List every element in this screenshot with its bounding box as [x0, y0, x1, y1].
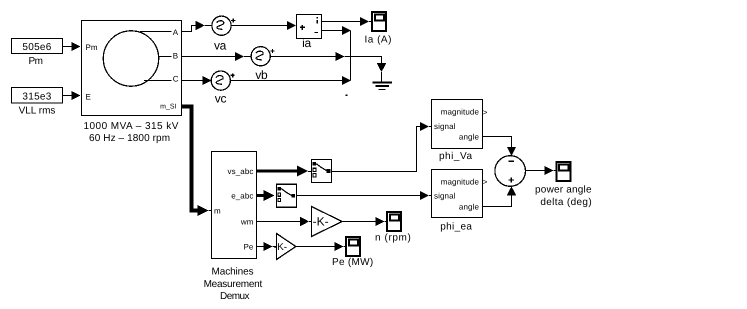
- wire B to vb: [182, 52, 252, 61]
- svg-text:VLL rms: VLL rms: [19, 106, 56, 117]
- svg-text:505e6: 505e6: [22, 42, 51, 53]
- sum block: [495, 156, 526, 187]
- svg-text:va: va: [214, 39, 227, 53]
- svg-text:>: >: [483, 178, 488, 187]
- wire ia minus-output to junction: [322, 26, 351, 35]
- svg-text:n (rpm): n (rpm): [375, 233, 411, 244]
- svg-text:-K-: -K-: [274, 242, 287, 253]
- wire Pm constant to machine: [63, 42, 81, 51]
- svg-text:Pm: Pm: [29, 56, 43, 67]
- wire gain1 to scope n: [342, 217, 386, 226]
- svg-text:signal: signal: [434, 192, 456, 201]
- wire gain2 to scope Pe: [296, 242, 345, 251]
- svg-text:315e3: 315e3: [22, 92, 51, 103]
- svg-text:Pe (MW): Pe (MW): [332, 257, 374, 268]
- svg-text:magnitude: magnitude: [441, 177, 480, 186]
- svg-text:e_abc: e_abc: [231, 192, 253, 201]
- svg-text:vs_abc: vs_abc: [228, 167, 254, 176]
- wire Pe to gain2: [257, 242, 277, 251]
- wire phi_ea angle to sum: [482, 186, 516, 206]
- svg-text:ia: ia: [302, 36, 311, 50]
- scope Ia (A): [364, 12, 391, 46]
- wire ia i-output to scope Ia: [322, 17, 372, 26]
- wire va to ia: [231, 21, 296, 30]
- svg-text:-K-: -K-: [313, 214, 329, 228]
- svg-text:m_SI: m_SI: [160, 103, 176, 110]
- thick wire m_SI to demux m: [182, 107, 212, 217]
- wire phi_Va angle to sum: [482, 137, 516, 156]
- svg-text:power angle: power angle: [535, 185, 592, 196]
- thick wire vs_abc to selector1: [257, 165, 312, 176]
- constant block Pm (505e6): [12, 39, 63, 68]
- voltage source vc: [211, 71, 235, 106]
- scope power angle delta: [535, 162, 592, 208]
- wire selector2 to phi_ea signal: [297, 191, 432, 200]
- svg-text:>: >: [483, 108, 488, 117]
- gain block 2 (-K-): [274, 234, 296, 260]
- wire sum to delta scope: [526, 166, 556, 175]
- svg-text:phi_Va: phi_Va: [439, 151, 473, 162]
- svg-text:phi_ea: phi_ea: [440, 221, 472, 232]
- svg-text:angle: angle: [459, 203, 480, 212]
- gain block 1 (-K-): [312, 207, 343, 237]
- wire VLL constant to machine: [63, 91, 81, 100]
- svg-text:60 Hz – 1800 rpm: 60 Hz – 1800 rpm: [89, 133, 170, 144]
- subsystem phi_Va: [432, 100, 488, 162]
- subsystem phi_ea: [432, 170, 488, 233]
- svg-text:angle: angle: [459, 133, 480, 142]
- svg-text:Demux: Demux: [220, 291, 249, 302]
- svg-text:Pm: Pm: [86, 43, 98, 52]
- svg-text:Measurement: Measurement: [204, 279, 263, 290]
- current measurement block ia: [297, 15, 322, 50]
- scope Pe (MW): [332, 237, 374, 268]
- svg-text:vb: vb: [255, 68, 268, 82]
- thick wire e_abc to selector2: [257, 190, 275, 201]
- wire vc to junction: [230, 76, 350, 85]
- svg-text:1000 MVA – 315 kV: 1000 MVA – 315 kV: [84, 121, 179, 132]
- svg-text:vc: vc: [215, 92, 227, 106]
- machines measurement demux block: [204, 152, 263, 303]
- wire selector1 to phi_Va signal: [332, 122, 432, 172]
- selector block 1: [312, 160, 332, 183]
- svg-text:Machines: Machines: [212, 267, 254, 278]
- wire C to vc: [182, 76, 212, 85]
- wire vb to ground node: [270, 52, 386, 72]
- svg-text:magnitude: magnitude: [441, 108, 480, 117]
- svg-text:B: B: [173, 51, 178, 60]
- voltage source vb: [251, 47, 275, 82]
- selector block 2: [276, 184, 296, 207]
- wire wm to gain1: [257, 217, 312, 226]
- svg-text:Pe: Pe: [244, 242, 254, 251]
- svg-text:delta (deg): delta (deg): [540, 197, 592, 208]
- synchronous machine block: [82, 21, 182, 145]
- junction vertical wire: [350, 31, 352, 81]
- stray dot: [346, 95, 348, 97]
- constant block VLL rms (315e3): [12, 88, 63, 117]
- scope n (rpm): [375, 212, 411, 244]
- svg-text:signal: signal: [434, 122, 456, 131]
- svg-text:m: m: [214, 207, 221, 216]
- voltage source va: [212, 16, 236, 52]
- svg-text:A: A: [173, 28, 179, 37]
- svg-text:E: E: [86, 93, 91, 102]
- svg-text:wm: wm: [240, 217, 254, 226]
- wire A to va: [182, 21, 213, 32]
- ground: [373, 72, 393, 90]
- svg-text:Ia (A): Ia (A): [364, 35, 391, 46]
- svg-text:C: C: [173, 75, 179, 84]
